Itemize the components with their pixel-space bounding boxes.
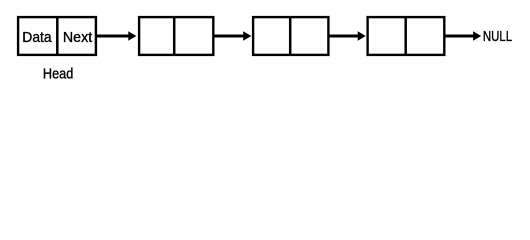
head node divider: [56, 17, 59, 55]
svg-text:Next: Next: [63, 30, 92, 46]
arrow 1 (head node to node 2): [96, 31, 137, 41]
node 3 divider: [289, 17, 292, 55]
arrow 3 (node 3 to node 4): [329, 31, 366, 41]
svg-text:Data: Data: [22, 30, 52, 46]
svg-text:Head: Head: [43, 66, 73, 82]
arrow 2 (node 2 to node 3): [214, 31, 252, 41]
node 3 box: [253, 17, 328, 55]
node 4 box: [368, 17, 445, 55]
head node box (Data|Next): [18, 17, 96, 55]
node 2 box: [139, 17, 213, 55]
node 4 divider: [404, 17, 407, 55]
node 2 divider: [173, 17, 176, 55]
arrow 4 (node 4 to NULL): [445, 31, 482, 41]
svg-text:NULL: NULL: [483, 29, 512, 45]
